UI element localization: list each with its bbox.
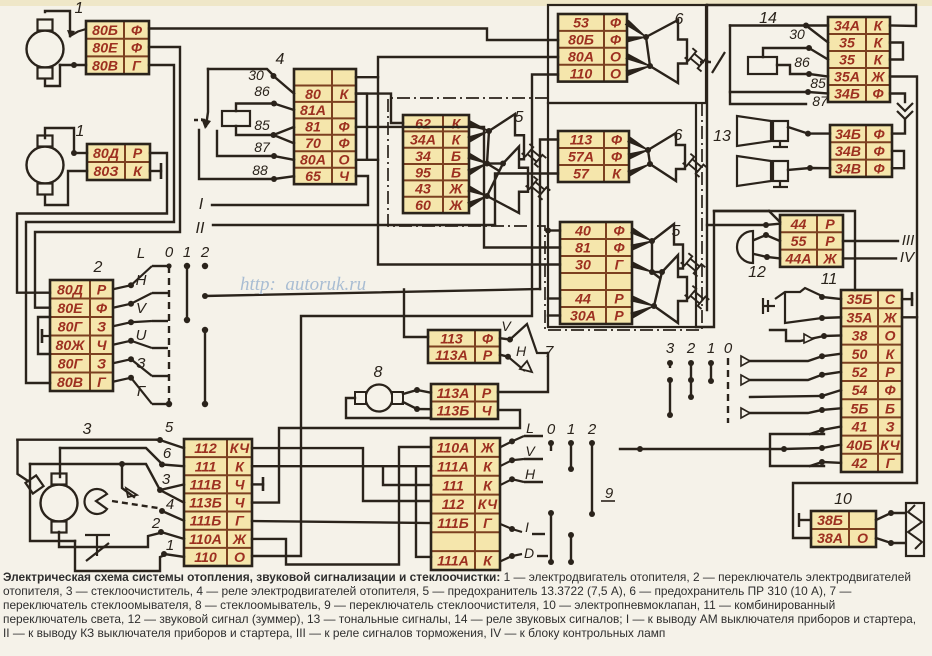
svg-text:88: 88: [252, 162, 268, 178]
wire row 81 right chain: [356, 127, 560, 248]
svg-text:Ф: Ф: [610, 32, 622, 48]
fuse feeder 60 feeder: [468, 196, 487, 207]
junction bracket feed dot: [637, 446, 643, 452]
wire 111В body stub: [252, 483, 263, 485]
svg-text:С: С: [885, 292, 896, 308]
wire wire 3 upper: [122, 464, 160, 490]
wire pin85 to 81: [274, 127, 295, 135]
svg-text:L: L: [137, 245, 145, 262]
35Б terminal bar: [911, 292, 914, 306]
svg-text:3: 3: [666, 340, 675, 357]
svg-text:2: 2: [587, 421, 597, 438]
svg-text:Н: Н: [516, 343, 527, 359]
wire contact3 to 113Б: [160, 490, 184, 503]
svg-text:Г: Г: [886, 456, 896, 472]
body terminal 80Ж: [42, 329, 50, 343]
svg-text:О: О: [857, 531, 868, 547]
junction sw11 d row9: [819, 445, 825, 451]
svg-text:35: 35: [839, 36, 856, 52]
wire col2 of switch2 to washer feed: [205, 289, 540, 296]
contact triangle row3: [804, 334, 813, 343]
svg-text:1: 1: [76, 123, 85, 140]
wire row 80К to fuse 62: [356, 94, 403, 123]
wire 111 long chain: [252, 465, 431, 467]
junction col9 2b: [589, 511, 595, 517]
svg-text:85: 85: [810, 75, 826, 91]
junction contact 3 dot: [157, 487, 163, 493]
svg-text:Ф: Ф: [338, 120, 350, 136]
svg-text:Ф: Ф: [611, 150, 623, 166]
svg-text:Г: Г: [97, 375, 107, 391]
wire pump right to 113Б: [403, 402, 431, 409]
svg-text:О: О: [234, 550, 245, 566]
junction col9 1a: [568, 440, 574, 446]
switch 11 lever upper: [775, 288, 822, 299]
wire motor1 bottom terminal to 80В: [45, 65, 60, 86]
motor wiper motor 3: [41, 474, 78, 533]
wire sw11 row8 diag: [822, 427, 841, 431]
limit lever tip: [126, 488, 137, 497]
svg-text:Р: Р: [483, 348, 493, 364]
fuse fuse 13.3722 A: [487, 114, 546, 181]
wire wire 6 inner: [59, 448, 61, 477]
fuse feeder 53 feeder: [625, 20, 646, 37]
svg-text:110А: 110А: [437, 441, 470, 457]
junction horn13 d1: [805, 131, 811, 137]
motor heater motor 1 upper: [27, 20, 64, 79]
junction c1 a: [708, 360, 714, 366]
svg-text:К: К: [483, 478, 493, 494]
svg-text:30: 30: [575, 258, 591, 274]
wire 80А row stub: [356, 159, 378, 161]
wire c1 bar: [710, 363, 712, 381]
svg-text:Ф: Ф: [131, 23, 143, 39]
wire contact tail Г: [152, 403, 168, 405]
svg-text:Ж: Ж: [870, 70, 885, 86]
svg-text:D: D: [524, 545, 534, 561]
wire lever to 113А pump link: [498, 353, 548, 392]
junction bracket dot: [781, 446, 787, 452]
switch 2 contact Г: [113, 378, 152, 404]
svg-text:80В: 80В: [57, 375, 83, 391]
wire contact2 to 110А: [161, 532, 184, 539]
wire 80Д to switch run: [17, 153, 167, 293]
svg-text:Р: Р: [885, 365, 895, 381]
junction c3 b: [667, 377, 673, 383]
connector table 2 heater switch connector: [50, 280, 113, 391]
wire sw9 tail Н: [524, 481, 543, 483]
svg-text:80Е: 80Е: [57, 301, 83, 317]
svg-text:Ж: Ж: [480, 441, 495, 457]
switch 9 contact D: [500, 554, 522, 562]
wire motor2 bottom to 80З: [45, 171, 87, 205]
wire column 0 dashed: [168, 266, 170, 404]
svg-text:О: О: [884, 329, 895, 345]
wire sw11 row6 wire: [750, 396, 822, 397]
wire 113 to switch contact V: [500, 338, 510, 339]
junction sw9 dot Н: [509, 476, 515, 482]
wire 80З to body point: [150, 170, 161, 172]
svg-text:34: 34: [415, 149, 431, 165]
wire column 2 bar: [204, 330, 206, 404]
svg-text:К: К: [452, 116, 462, 132]
wire pump left loop: [346, 398, 431, 418]
wire motor bottom run: [59, 532, 104, 547]
svg-text:К: К: [483, 459, 493, 475]
connector table 3 wiper motor connector: [184, 439, 252, 566]
wire block3 left drop: [18, 440, 29, 481]
svg-text:Ф: Ф: [873, 144, 885, 160]
fuse unit 6 solid box: [548, 5, 706, 103]
junction contact dot Г: [128, 375, 134, 381]
wire buzzer to 55: [754, 235, 780, 241]
wire relay 4 pin30 feed: [208, 69, 273, 75]
svg-text:110: 110: [194, 550, 217, 566]
svg-text:81А: 81А: [300, 103, 326, 119]
svg-text:35Б: 35Б: [847, 292, 873, 308]
wire pedal loop: [75, 541, 165, 571]
relay 4 coil: [222, 111, 250, 126]
wire pin30 to 80: [274, 76, 295, 94]
svg-text:12: 12: [748, 264, 766, 281]
svg-text:IV: IV: [900, 249, 916, 266]
fuse fuse ПР310 lower: [648, 133, 707, 181]
junction frame junction 40: [545, 228, 551, 234]
svg-text:80Д: 80Д: [93, 146, 119, 162]
svg-text:К: К: [886, 347, 896, 363]
fuse feeder 34А feeder: [468, 131, 489, 142]
junction valve d2: [888, 540, 894, 546]
svg-text:Г: Г: [235, 514, 245, 530]
switch 11 body terminal: [763, 298, 775, 314]
junction sw11 d row10: [819, 459, 825, 465]
wire horn2 to 34В: [788, 168, 830, 170]
svg-text:Р: Р: [482, 386, 492, 402]
svg-text:43: 43: [414, 182, 431, 198]
junction relay14 d86: [806, 71, 812, 77]
wire pin86 to 81А: [274, 104, 294, 111]
svg-text:44: 44: [574, 292, 591, 308]
svg-text:К: К: [235, 459, 245, 475]
wire sw11 row8 to bracket: [810, 430, 822, 434]
svg-text:35А: 35А: [846, 310, 872, 326]
wire branch to washer switch 113: [404, 290, 428, 338]
svg-text:5: 5: [165, 419, 174, 436]
junction pin85 dot: [271, 132, 277, 138]
svg-text:К: К: [340, 87, 350, 103]
junction sw9 dot L: [509, 438, 515, 444]
wire pin88 to 65: [274, 176, 294, 179]
svg-text:80А: 80А: [300, 153, 326, 169]
svg-text:Ф: Ф: [873, 127, 885, 143]
svg-text:54: 54: [852, 383, 868, 399]
svg-text:57: 57: [573, 167, 590, 183]
fuse feeder 113 feeder: [628, 137, 648, 150]
wire relay row1 tap: [356, 76, 378, 78]
svg-text:Р: Р: [614, 309, 624, 325]
wire t13 35А right long down: [890, 77, 917, 318]
wire col9 1 bar: [570, 443, 572, 469]
svg-text:0: 0: [165, 244, 174, 261]
svg-text:Н: Н: [136, 272, 147, 289]
svg-text:11: 11: [821, 271, 838, 288]
wire contact tail З: [152, 375, 168, 377]
svg-text:Г: Г: [615, 258, 625, 274]
svg-text:6: 6: [674, 127, 683, 144]
valve resistor box: [906, 503, 924, 556]
svg-text:К: К: [133, 164, 143, 180]
svg-text:38: 38: [852, 329, 868, 345]
svg-text:Ф: Ф: [613, 224, 625, 240]
connector table 11 combined light switch connector: [841, 290, 902, 472]
svg-text:8: 8: [374, 364, 383, 381]
fuse feeder 80А feeder: [626, 54, 650, 66]
svg-text:81: 81: [305, 120, 321, 136]
wire block3 top feed: [16, 439, 18, 441]
connector table 4 heater relay connector: [294, 69, 356, 185]
wire chevron to 34Б lower: [892, 120, 905, 134]
svg-text:80Г: 80Г: [58, 319, 84, 335]
svg-text:81: 81: [575, 241, 591, 257]
junction c3 c: [667, 412, 673, 418]
svg-text:Р: Р: [614, 292, 624, 308]
svg-text:40: 40: [574, 224, 591, 240]
svg-text:110: 110: [570, 66, 593, 82]
wire 112 chain: [252, 448, 431, 501]
svg-text:35: 35: [839, 53, 856, 69]
svg-text:34В: 34В: [835, 144, 861, 160]
fuse feeder 43 feeder: [468, 186, 487, 196]
junction fuse6a dot2: [647, 63, 653, 69]
junction pin86 dot: [271, 101, 277, 107]
fuse unit 5 solid box: [548, 103, 696, 327]
svg-text:80А: 80А: [568, 49, 594, 65]
junction fuse5a dotC: [484, 193, 490, 199]
38Б body terminal: [799, 513, 811, 527]
connector table 5 fuse 13.3722 right connector: [560, 222, 632, 325]
svg-text:2: 2: [686, 340, 696, 357]
junction col2 bot: [202, 401, 208, 407]
svg-text:40Б: 40Б: [846, 438, 873, 454]
arrowhead motor1: [67, 30, 75, 38]
junction sw11 d row4: [819, 353, 825, 359]
svg-text:42: 42: [851, 456, 868, 472]
wire sw11 row2 link: [822, 316, 841, 319]
wire 80А riser to fuse unit: [378, 57, 560, 265]
wire contact3 to 111В: [160, 484, 184, 490]
junction fuse6b dot2: [647, 161, 653, 167]
buzzer 12 symbol: [737, 231, 753, 263]
svg-text:111: 111: [195, 459, 217, 475]
svg-text:85: 85: [254, 117, 270, 133]
junction contact dot L: [128, 282, 134, 288]
junction c1 b: [708, 378, 714, 384]
svg-text:К: К: [612, 167, 622, 183]
svg-text:Ч: Ч: [234, 477, 245, 493]
svg-text:4: 4: [166, 496, 174, 513]
svg-text:62: 62: [415, 116, 431, 132]
svg-text:Б: Б: [885, 401, 895, 417]
washer pump motor 8: [355, 385, 403, 412]
wire dotB link: [487, 162, 503, 164]
svg-text:52: 52: [852, 365, 868, 381]
svg-text:К: К: [874, 19, 884, 35]
junction contact 1 dot: [161, 551, 167, 557]
svg-text:53: 53: [573, 16, 589, 32]
junction c2 b: [688, 377, 694, 383]
connector table 14 horn relay connector: [828, 17, 890, 103]
connector table 12 buzzer connector 44/55/44А: [780, 215, 843, 267]
wire III line: [843, 240, 898, 242]
junction col9 1b: [568, 466, 574, 472]
svg-text:Р: Р: [825, 234, 835, 250]
wire vertical x30 down: [30, 464, 75, 541]
svg-text:1: 1: [707, 340, 715, 357]
svg-text:К: К: [874, 36, 884, 52]
motor heater motor 1 lower: [27, 136, 64, 195]
svg-text:Ф: Ф: [610, 16, 622, 32]
svg-text:4: 4: [276, 51, 285, 68]
wire sw11 row4 diag: [822, 354, 841, 357]
wire pedal to contact2: [104, 533, 160, 547]
wire sw11 row3 lever: [770, 330, 824, 341]
junction col9 lb2: [568, 559, 574, 565]
svg-text:65: 65: [305, 169, 322, 185]
connector table 1 lower heater motor connector 80Д/80З: [87, 144, 150, 180]
junction col2 feed dot: [202, 293, 208, 299]
junction buzzer d2: [764, 254, 770, 260]
wire relay14 lever dash: [700, 61, 712, 63]
wire pin88 fixed contact: [199, 130, 274, 179]
svg-text:6: 6: [163, 445, 172, 462]
svg-text:О: О: [338, 153, 349, 169]
wire pin85 to 70: [274, 135, 295, 143]
wire contact4 to 111Б: [162, 511, 184, 521]
wire t13 bracket rows2-3: [890, 43, 903, 60]
svg-text:113: 113: [570, 133, 593, 149]
wire 40 row stub: [548, 229, 560, 231]
junction horn13 d2: [807, 165, 813, 171]
svg-text:1: 1: [183, 244, 191, 261]
wire t13 34Б right chevron run: [890, 94, 905, 103]
connector table 10 electro-pneumatic valve connector 38Б/38А: [811, 511, 876, 547]
svg-text:111: 111: [442, 478, 464, 494]
wire c3 tail: [669, 363, 671, 368]
wire pin87 to 80А: [274, 156, 294, 160]
wire col9 2 bar: [591, 443, 593, 514]
svg-text:Р: Р: [97, 282, 107, 298]
svg-text:80В: 80В: [92, 58, 118, 74]
svg-text:Ф: Ф: [482, 331, 494, 347]
svg-text:111Б: 111Б: [190, 514, 222, 530]
switch 9 contact V: [500, 459, 524, 466]
svg-text:14: 14: [759, 10, 777, 27]
wire col9 lower bar2: [570, 535, 572, 562]
wire line I from 65: [212, 176, 368, 205]
svg-text:30: 30: [789, 26, 805, 42]
svg-text:112: 112: [194, 441, 217, 457]
svg-text:З: З: [97, 319, 106, 335]
svg-text:К: К: [483, 554, 493, 570]
svg-text:Ч: Ч: [234, 496, 245, 512]
switch 9 contact I: [500, 524, 522, 532]
svg-text:III: III: [902, 232, 915, 249]
wire bracket feed: [620, 448, 784, 450]
wire 80В row to motor: [60, 64, 86, 66]
svg-text:80Б: 80Б: [92, 23, 118, 39]
junction fuse5a dotA: [486, 128, 492, 134]
junction limit switch dot: [119, 461, 125, 467]
wire c3 bar: [669, 380, 671, 415]
wire frame fuse unit bottom: [696, 211, 769, 327]
svg-text:Р: Р: [825, 217, 835, 233]
wire contact tail L: [152, 265, 168, 267]
wire d85 to 34Б: [808, 92, 828, 94]
junction sw11 d row1: [819, 294, 825, 300]
svg-text:80: 80: [305, 87, 321, 103]
paper tint top: [0, 0, 932, 6]
svg-text:110А: 110А: [189, 532, 222, 548]
svg-text:5: 5: [672, 223, 681, 240]
wire row10 from bracket: [810, 462, 822, 466]
wire 111А branch down: [416, 466, 431, 557]
fuse feeder 30А feeder: [631, 306, 654, 318]
junction sw11 d row2: [819, 315, 825, 321]
fuse fuse right B: [654, 255, 709, 323]
svg-text:41: 41: [851, 420, 868, 436]
svg-text:30А: 30А: [570, 309, 596, 325]
junction junction 80Д wire: [71, 150, 77, 156]
wire d30 to 35b: [809, 48, 828, 60]
svg-text:Ф: Ф: [611, 133, 623, 149]
svg-text:13: 13: [713, 128, 731, 145]
arrow into motor1: [70, 29, 86, 36]
junction sw11 d row5: [819, 372, 825, 378]
wire line II: [213, 224, 495, 226]
junction buzzer d0: [763, 222, 769, 228]
svg-text:Н: Н: [525, 466, 536, 482]
wire 80Е right run down: [35, 47, 180, 308]
wire 44 row stub: [548, 297, 560, 299]
wire sw11 row7 wire: [750, 410, 822, 413]
wire 110А chain: [252, 447, 431, 565]
wire coil top to 30: [763, 48, 809, 57]
switch 7 lower lever: [508, 357, 525, 371]
wire col9 lower bar1: [550, 513, 552, 562]
junction fuse5b dotB2: [659, 269, 665, 275]
wire sw11 row9 diag: [822, 445, 841, 448]
svg-text:Б: Б: [451, 165, 461, 181]
wire sw9 tail L: [524, 435, 543, 437]
svg-text:http: autoruk.ru: http: autoruk.ru: [240, 274, 366, 295]
wire 110 chain from fuse to wiper motor: [252, 75, 558, 557]
wire 38А to resistor: [876, 538, 906, 543]
wire d1 to 35: [806, 26, 828, 43]
svg-text:К: К: [874, 53, 884, 69]
switch 7 upper lever: [510, 324, 548, 353]
svg-text:U: U: [136, 327, 147, 344]
wire 34А loop top: [707, 5, 916, 26]
svg-text:Ф: Ф: [872, 87, 884, 103]
wire pin86 to coil: [236, 104, 274, 112]
tonal horn 13-1: [737, 116, 788, 147]
double chevron arrow: [897, 103, 913, 119]
svg-text:5Б: 5Б: [851, 401, 869, 417]
junction pin30 dot: [271, 73, 277, 79]
wire buzzer top to 44: [766, 224, 780, 225]
fuse feeder 44 feeder: [631, 296, 654, 306]
switch 2 contact L: [113, 266, 152, 289]
